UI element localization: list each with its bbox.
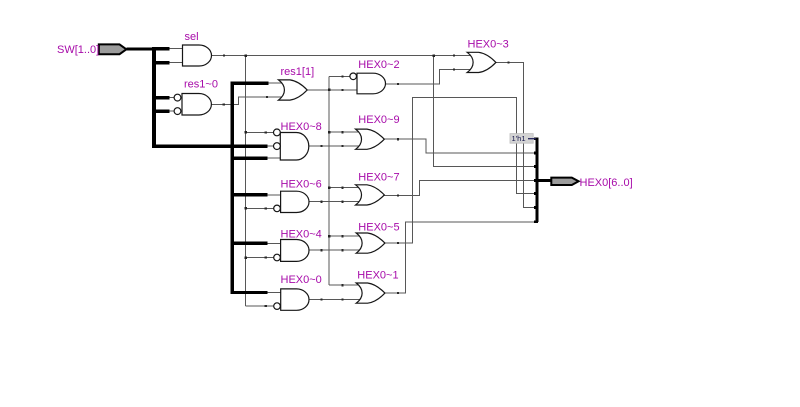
svg-text:HEX0~2: HEX0~2 [358, 59, 399, 71]
join tick HEX0~1 [534, 220, 538, 223]
junction sel net branch to bus [432, 54, 435, 57]
junction res1[1] net tap HEX0~5 [328, 235, 331, 238]
pin tick HEX0~1 input2 [341, 298, 343, 300]
svg-text:HEX0~9: HEX0~9 [358, 114, 399, 126]
SW bus bottom elbow to HEX0~8 input2 [152, 144, 268, 148]
wire input port to SW bus [127, 47, 157, 50]
svg-text:HEX0~0: HEX0~0 [281, 274, 322, 286]
bus join ticks [534, 137, 538, 223]
wire V2 tap to HEX0~7 input1 [329, 187, 363, 189]
wire V1 tap to HEX0~8 input1 [246, 131, 275, 133]
output port HEX0[6..0] [551, 178, 578, 185]
SW bus stub sel input1 [152, 47, 170, 51]
bubble HEX0~8 input1 [274, 129, 281, 136]
SW bus vertical [152, 47, 156, 144]
SW bus stub res1~0 input1 [152, 96, 170, 100]
wire HEX0~0 output to HEX0~1 input2 [309, 298, 363, 300]
pin tick HEX0~2 input1 [341, 75, 343, 77]
wire sel input 2 thin [169, 62, 183, 64]
wire HEX0~2 output step up to HEX0~3 input2 [386, 69, 475, 84]
pin tick HEX0~4 output [320, 249, 322, 251]
pin tick HEX0~8 output [320, 145, 322, 147]
pin tick HEX0~2 output [397, 83, 399, 85]
bubble res1~0 input1 [174, 94, 181, 101]
svg-text:SW[1..0]: SW[1..0] [57, 44, 99, 56]
wire res1[1] input1 thin part [268, 82, 286, 84]
pin tick HEX0~1 output [397, 292, 399, 294]
wire HEX0~4 input1 thin [267, 242, 281, 244]
wire V2 top elbow to HEX0~2 bubble [329, 75, 350, 77]
pin tick HEX0~7 input1 [341, 187, 343, 189]
pin tick HEX0~4 input2 [265, 257, 267, 259]
join tick HEX0~7 [534, 179, 538, 182]
or-gate HEX0~1 [356, 283, 385, 303]
junction res1[1] net tap HEX0~7 [328, 187, 331, 190]
HEX0 output bus vertical [536, 137, 539, 222]
wire res1~0 input 2 thin [169, 110, 175, 112]
res1 bus stub HEX0~8 input3 [232, 156, 268, 159]
svg-text:HEX0~7: HEX0~7 [358, 172, 399, 184]
wire HEX0~1 output step up to bus bottom join [385, 222, 536, 293]
junction sel net tap HEX0~8 [244, 131, 247, 134]
pin tick HEX0~5 input1 [341, 235, 343, 237]
pin tick res1~0 output [223, 103, 225, 105]
thin wires [169, 49, 536, 307]
svg-text:sel: sel [185, 31, 199, 43]
SW bus stub res1~0 input2 [152, 109, 170, 113]
pin tick HEX0~8 input1 [265, 131, 267, 133]
pin ticks [223, 54, 510, 307]
svg-text:HEX0~6: HEX0~6 [281, 178, 322, 190]
wire V2 tap to HEX0~9 input1 [329, 131, 363, 133]
svg-text:res1~0: res1~0 [184, 78, 218, 90]
svg-text:1'h1: 1'h1 [512, 134, 526, 143]
wire res1~0 output step to res1[1] input2 [211, 97, 286, 104]
bubble HEX0~8 input2 [274, 143, 281, 150]
wire sel branch V3 down [434, 55, 536, 166]
wire HEX0~8 input3 thin [267, 157, 281, 159]
and-gate HEX0~2 [357, 73, 386, 94]
wire V2 end to HEX0~1 input1 [329, 284, 363, 286]
svg-text:HEX0[6..0]: HEX0[6..0] [580, 177, 633, 189]
junction res1[1] net tap HEX0~9 [328, 131, 331, 134]
svg-text:res1[1]: res1[1] [281, 66, 315, 78]
join tick 1'h1 [534, 137, 538, 140]
wire HEX0~6 output to HEX0~7 input2 [309, 201, 363, 203]
pin tick HEX0~5 input2 [341, 249, 343, 251]
and-gate HEX0~4 [281, 240, 309, 262]
svg-text:HEX0~3: HEX0~3 [468, 38, 509, 50]
wire HEX0~8 input2 thin [266, 145, 274, 147]
and-gate sel [183, 45, 212, 66]
res1 bus bottom elbow to HEX0~0 input1 [231, 291, 268, 294]
wire sel input 1 thin [169, 48, 183, 50]
pin tick res1[1] input2 [266, 96, 268, 98]
and-gate HEX0~0 [281, 289, 309, 310]
wire V1 end to HEX0~0 input2 [246, 305, 275, 307]
junction res1[1] net at output wire [328, 89, 331, 92]
wire vertical sel net V1 [245, 55, 247, 306]
join tick sel [534, 165, 538, 168]
or-gate HEX0~9 [356, 129, 385, 149]
junction sel net tap HEX0~4 [244, 256, 247, 259]
wire V1 tap to HEX0~4 input2 [246, 257, 275, 259]
or-gate HEX0~3 [467, 52, 496, 72]
wire HEX0~6 input1 thin [267, 194, 281, 196]
pin tick HEX0~7 output [397, 194, 399, 196]
and-gate HEX0~8 three-input [280, 133, 309, 161]
res1 bus stub HEX0~6 input1 [232, 193, 268, 196]
bubble res1~0 input2 [174, 108, 181, 115]
pin tick HEX0~0 input2 [265, 305, 267, 307]
junction sel net at sel output wire [244, 54, 247, 57]
bubble HEX0~4 input2 [274, 254, 281, 261]
join tick HEX0~5 [534, 192, 538, 195]
pin tick HEX0~0 output [320, 298, 322, 300]
and-gate HEX0~6 [281, 191, 309, 212]
pin tick HEX0~9 input1 [341, 131, 343, 133]
SW bus stub sel input2 [152, 61, 170, 65]
join tick HEX0~9 [534, 152, 538, 155]
or-gate HEX0~7 [356, 185, 385, 205]
svg-text:HEX0~8: HEX0~8 [281, 121, 322, 133]
svg-text:HEX0~5: HEX0~5 [358, 222, 399, 234]
pin tick HEX0~2 input2 [341, 89, 343, 91]
pin tick HEX0~9 input2 [341, 145, 343, 147]
wire V1 tap to HEX0~6 input2 [246, 207, 275, 209]
pin tick HEX0~3 input1 [453, 54, 455, 56]
pin tick HEX0~6 output [320, 201, 322, 203]
bubble HEX0~2 input1 [350, 73, 357, 80]
wire HEX0~9 output step down to bus join [384, 139, 536, 153]
wire output bus to output port [537, 179, 552, 182]
bubble HEX0~6 input2 [274, 205, 281, 212]
wire vertical res1[1] net V2 [328, 76, 330, 285]
wire V2 tap to HEX0~5 input1 [329, 235, 363, 237]
junction dots [244, 54, 434, 258]
or-gate res1[1] [279, 80, 308, 100]
svg-text:HEX0~1: HEX0~1 [357, 269, 398, 281]
gates [174, 45, 496, 310]
pin tick sel output [223, 54, 225, 56]
res1 bus stub HEX0~4 input1 [232, 242, 268, 245]
and-gate res1~0 [182, 94, 211, 116]
pin tick HEX0~5 output [397, 242, 399, 244]
input port SW[1..0] [99, 44, 127, 54]
pin tick HEX0~1 input1 [341, 284, 343, 286]
res1 bus top elbow to res1[1] input1 [231, 81, 269, 84]
wire HEX0~3 output down to bus join [496, 62, 536, 207]
join tick HEX0~3 [534, 206, 538, 209]
wire HEX0~0 input1 thin [267, 292, 281, 294]
bubble HEX0~0 input2 [274, 303, 281, 310]
constant 1'h1 [510, 134, 536, 144]
wire res1~0 input 1 thin [169, 97, 175, 99]
svg-text:HEX0~4: HEX0~4 [281, 228, 322, 240]
junction sel net tap HEX0~6 [244, 207, 247, 210]
wire sel output to HEX0~3 top input [212, 54, 475, 56]
pin tick HEX0~3 input2 [453, 68, 455, 70]
pin tick HEX0~3 output [508, 61, 510, 63]
pin tick HEX0~9 output [397, 138, 399, 140]
or-gate HEX0~5 [356, 233, 385, 253]
wire HEX0~4 output to HEX0~5 input2 [309, 249, 363, 251]
wire HEX0~8 output to HEX0~9 input2 [309, 145, 363, 147]
wire HEX0~5 output loop up over to bus join [385, 97, 536, 243]
pin tick HEX0~7 input2 [341, 201, 343, 203]
wire HEX0~7 output step up to bus join [384, 181, 536, 196]
res1 bus vertical [230, 83, 233, 292]
wire res1[1] output to HEX0~2 input2 [307, 89, 358, 91]
pin tick HEX0~6 input2 [265, 207, 267, 209]
thick bus wires [127, 47, 552, 292]
